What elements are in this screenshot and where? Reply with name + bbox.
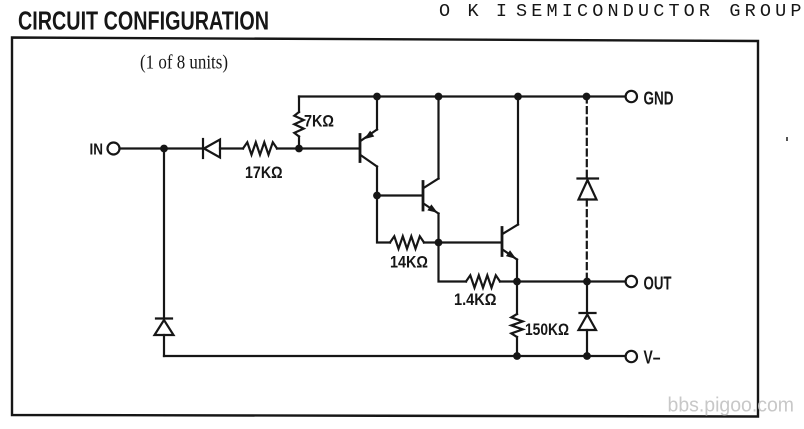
terminal GND <box>626 91 637 102</box>
wire 14K to node D <box>424 241 439 243</box>
diode D4 (IN to V-) <box>155 319 174 357</box>
terminal V- <box>626 351 637 362</box>
svg-text:150KΩ: 150KΩ <box>525 320 569 339</box>
junction V- rail 1 <box>513 352 521 360</box>
transistor Q2 (npn) <box>423 97 440 243</box>
wire IN node down <box>163 149 165 319</box>
junction GND rail 4 <box>583 93 591 101</box>
junction OUT rail 2 <box>583 278 591 286</box>
resistor 7K <box>294 97 303 149</box>
svg-text:O K I: O K I <box>439 1 507 22</box>
diode D3 (OUT to V-) <box>579 282 597 357</box>
svg-text:17KΩ: 17KΩ <box>245 163 283 182</box>
svg-text:14KΩ: 14KΩ <box>390 253 428 272</box>
resistor 17K <box>243 142 277 154</box>
junction node B <box>295 145 303 153</box>
wire OUT rail <box>517 280 626 282</box>
junction GND rail 2 <box>435 93 443 101</box>
wire GND rail <box>299 95 626 97</box>
junction OUT rail 1 <box>513 278 521 286</box>
svg-text:V–: V– <box>644 348 661 368</box>
wire IN to node A <box>120 147 203 149</box>
svg-text:bbs.pigoo.com: bbs.pigoo.com <box>668 395 795 417</box>
junction IN node <box>160 145 168 153</box>
svg-text:CIRCUIT CONFIGURATION: CIRCUIT CONFIGURATION <box>18 5 269 35</box>
terminal IN <box>108 143 120 155</box>
transistor Q3 (npn) <box>502 97 518 282</box>
junction GND rail 1 <box>373 93 381 101</box>
wire Q1 collector to Q2 base <box>377 194 422 196</box>
junction V- rail 2 <box>583 352 591 360</box>
resistor 1.4K <box>466 275 500 287</box>
terminal OUT <box>626 276 637 287</box>
svg-text:(1 of 8 units): (1 of 8 units) <box>140 52 228 74</box>
resistor 14K <box>390 236 424 248</box>
diode D2 (dashed clamp to GND) <box>578 97 599 282</box>
svg-text:7KΩ: 7KΩ <box>304 112 334 131</box>
svg-text:IN: IN <box>90 142 104 159</box>
junction node D <box>435 239 443 247</box>
svg-text:GND: GND <box>644 89 674 109</box>
junction node C <box>373 192 381 200</box>
resistor 150K <box>511 282 522 357</box>
diode D1 <box>203 139 243 158</box>
wire node B to Q1 base <box>299 147 359 149</box>
svg-text:1.4KΩ: 1.4KΩ <box>454 290 497 309</box>
wire node D down <box>439 243 467 282</box>
wire 1.4K to OUT rail <box>500 280 517 282</box>
junction GND rail 3 <box>514 93 522 101</box>
wire V- rail <box>164 355 626 357</box>
wire node C down <box>377 196 390 243</box>
wire resistor to node B <box>277 147 299 149</box>
svg-text:OUT: OUT <box>644 274 672 294</box>
wire node D to Q3 base <box>439 241 502 243</box>
transistor Q1 (pnp) <box>360 97 377 196</box>
